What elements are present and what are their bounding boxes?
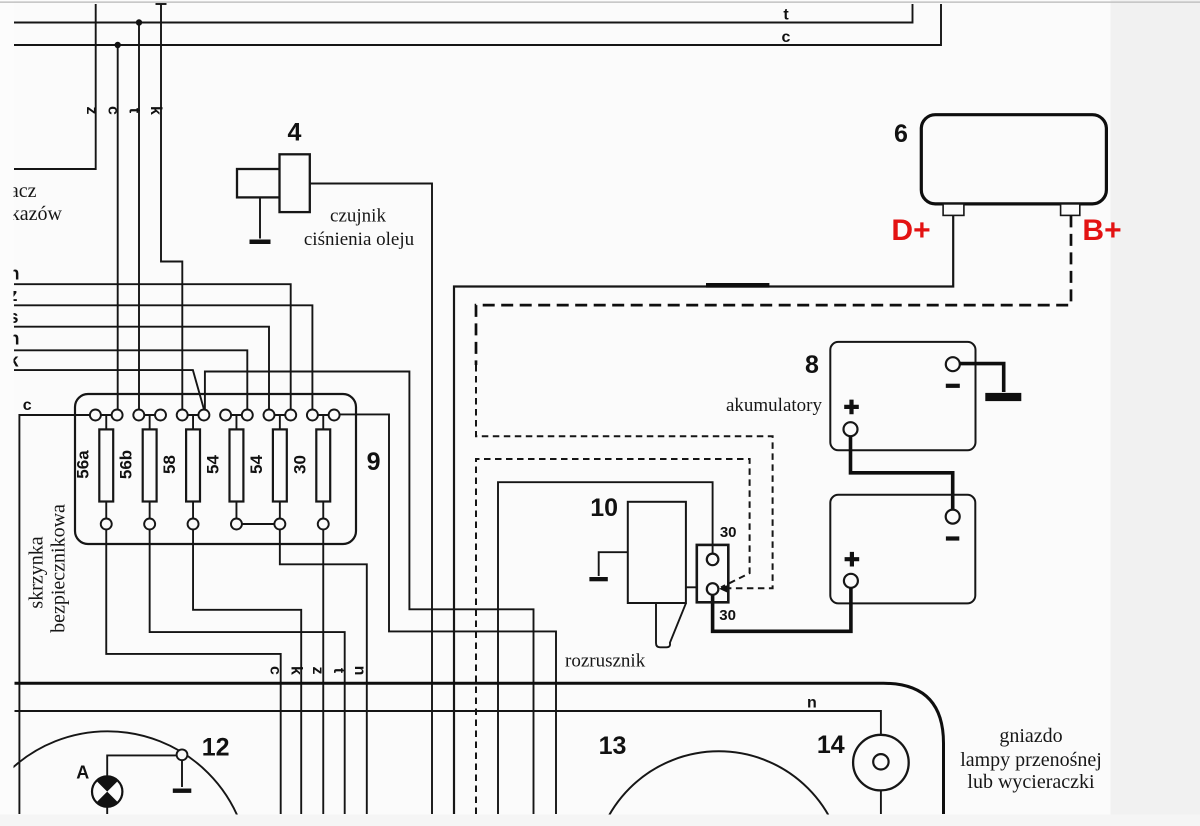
svg-text:13: 13 xyxy=(599,732,627,760)
minus sign lower battery xyxy=(946,536,959,540)
wire from fuse circle 6 up and right, down to bottom edge xyxy=(205,372,534,815)
ground cable from battery 8 minus xyxy=(960,364,1004,392)
wire t bus (top horizontal, turns up at right) xyxy=(14,4,913,23)
plus terminal circle battery 8 xyxy=(844,422,858,436)
right scan margin band xyxy=(1111,0,1200,826)
plus sign battery 8 xyxy=(844,400,859,415)
wire fuse1 bottom to bottom edge (label c) xyxy=(106,530,280,815)
svg-text:lub wycieraczki: lub wycieraczki xyxy=(967,771,1095,793)
fuse 54 body (second) xyxy=(273,429,287,501)
wire row s to fuse circle 9 xyxy=(14,327,269,410)
svg-text:54: 54 xyxy=(247,455,266,474)
socket 14 inner circle xyxy=(873,754,888,769)
svg-text:54: 54 xyxy=(203,455,222,474)
svg-text:c: c xyxy=(782,29,791,46)
thick mark on D+ wire xyxy=(706,283,769,288)
starter foot xyxy=(656,603,686,647)
terminal tab D+ of box 6 xyxy=(943,204,964,216)
svg-text:k: k xyxy=(288,666,305,675)
svg-text:czujnik: czujnik xyxy=(330,206,386,227)
svg-text:c: c xyxy=(23,397,32,414)
svg-text:t: t xyxy=(330,668,347,674)
notch link starter to terminal box xyxy=(686,586,697,588)
terminal circle 30 upper xyxy=(707,554,719,566)
svg-text:58: 58 xyxy=(160,455,179,474)
wire from bottom edge up to terminal 30 upper xyxy=(498,482,713,814)
fuse 30 body xyxy=(316,429,330,501)
wire c into fuse circle 1 and left drop to bottom edge xyxy=(19,415,90,814)
dashed wire from bottom edge to starter terminal 30 (inner) xyxy=(476,459,750,814)
starter ground lead xyxy=(599,552,628,576)
svg-text:14: 14 xyxy=(817,731,845,759)
svg-text:6: 6 xyxy=(894,120,908,148)
svg-text:z: z xyxy=(83,107,100,115)
fuse 58 body xyxy=(186,429,200,501)
wire lamp bottom to edge xyxy=(106,807,108,814)
wire c drop to fuse circle 2 xyxy=(117,45,119,410)
svg-text:skrzynka: skrzynka xyxy=(26,536,48,608)
wire from fuse circle 12 right and down to bottom edge xyxy=(340,414,556,814)
wire n inside frame to socket 14 xyxy=(15,711,881,755)
wire from sensor 4 to bottom edge xyxy=(310,184,433,815)
minus sign battery 8 xyxy=(946,384,960,388)
ground lead of sensor 4 xyxy=(259,197,261,239)
fuse top terminal circles row xyxy=(90,410,340,421)
wire lamp top to node on circle 12 xyxy=(107,755,176,776)
svg-text:bezpiecznikowa: bezpiecznikowa xyxy=(48,504,70,633)
series cable battery 8 plus to battery minus xyxy=(851,436,953,509)
ground bar of sensor 4 xyxy=(250,240,271,245)
wire z (vertical from top, turns left to edge) xyxy=(14,4,96,169)
wire from socket 14 to bottom edge xyxy=(880,790,882,814)
svg-text:t: t xyxy=(126,108,143,114)
link between bottom circles of fuses 54-54 xyxy=(242,523,274,525)
svg-text:acz: acz xyxy=(10,180,37,202)
wire fuse2 bottom to bottom edge (label t) xyxy=(150,530,345,815)
top scan edge line xyxy=(0,1,1200,3)
wire row n2 to fuse circle 8 xyxy=(14,350,247,409)
fuse box 9 (skrzynka bezpiecznikowa) outline xyxy=(75,394,356,544)
minus terminal circle battery 8 xyxy=(946,357,960,371)
svg-text:12: 12 xyxy=(202,734,230,762)
terminal circle 30 lower xyxy=(707,583,719,595)
svg-text:30: 30 xyxy=(290,455,309,474)
ground bar battery 8 xyxy=(985,393,1021,401)
svg-text:10: 10 xyxy=(590,494,618,522)
svg-text:30: 30 xyxy=(720,524,737,541)
cable lower battery plus to starter terminal 30 xyxy=(713,588,851,632)
node circle on arc 12 xyxy=(177,749,188,760)
wire t drop to fuse circle 3 xyxy=(138,23,140,410)
svg-text:A: A xyxy=(76,763,89,783)
svg-text:z: z xyxy=(309,667,326,675)
junction dot on c bus xyxy=(115,42,121,48)
ground bar in circle 12 xyxy=(173,789,192,793)
svg-text:gniazdo: gniazdo xyxy=(999,725,1062,747)
svg-text:lampy przenośnej: lampy przenośnej xyxy=(960,749,1102,771)
svg-text:akumulatory: akumulatory xyxy=(726,395,823,416)
circle 12 (large arc, headlight) xyxy=(0,731,250,826)
starter 10 body (rozrusznik) xyxy=(628,502,686,603)
minus terminal circle lower battery xyxy=(946,510,960,524)
fuse 56b body xyxy=(143,429,157,501)
svg-text:8: 8 xyxy=(805,351,819,379)
svg-text:56b: 56b xyxy=(117,450,136,479)
fuse bottom terminal circles xyxy=(101,519,329,530)
socket 14 outer circle xyxy=(853,735,909,791)
wire fuse6 bottom straight down (label z) xyxy=(322,530,324,815)
svg-text:ciśnienia oleju: ciśnienia oleju xyxy=(304,229,415,250)
left scan margin xyxy=(0,0,14,826)
battery lower box xyxy=(830,495,975,604)
arrowhead at terminal 30 xyxy=(719,584,730,593)
fuse pair connectors and stubs xyxy=(101,415,329,429)
svg-text:n: n xyxy=(807,695,817,712)
wire fuse5 bottom to bottom edge (label n) xyxy=(280,530,367,815)
circle 13 (large arc) xyxy=(593,751,845,826)
svg-text:k: k xyxy=(147,106,164,115)
wire row n to fuse circle 10 xyxy=(14,284,291,409)
svg-text:c: c xyxy=(105,106,122,115)
oil pressure sensor 4 body xyxy=(280,154,310,212)
svg-text:9: 9 xyxy=(367,448,381,476)
svg-text:56a: 56a xyxy=(73,450,92,479)
terminal tab B+ of box 6 xyxy=(1061,204,1080,216)
svg-text:c: c xyxy=(266,666,283,675)
regulator box 6 xyxy=(921,115,1106,204)
wire D+ down, left and to bottom edge xyxy=(454,215,953,814)
svg-text:rozrusznik: rozrusznik xyxy=(565,651,646,672)
wire k (from top cap, jogs right, to fuse circle 5) xyxy=(161,4,182,410)
cap tick on wire k top xyxy=(156,3,167,5)
svg-text:B+: B+ xyxy=(1082,214,1121,247)
svg-text:4: 4 xyxy=(288,119,302,147)
bottom scan margin strip xyxy=(0,815,1200,826)
fuse 54 body (first) xyxy=(230,429,244,501)
junction dot on t bus xyxy=(136,19,142,25)
ground lead from node xyxy=(181,760,183,787)
frame of bottom unit (thick line with rounded corner) xyxy=(15,683,944,814)
svg-text:D+: D+ xyxy=(891,214,930,247)
wire fuse3 bottom to bottom edge (label k) xyxy=(193,530,301,815)
svg-text:30: 30 xyxy=(719,607,736,624)
svg-text:kazów: kazów xyxy=(10,203,63,225)
starter terminal box xyxy=(697,545,729,602)
plus terminal circle lower battery xyxy=(844,574,858,588)
svg-text:n: n xyxy=(351,666,368,676)
fuse 56a body xyxy=(99,429,113,501)
dashed wire B+ down and left xyxy=(476,215,1071,365)
lamp A symbol circle xyxy=(92,776,122,806)
wire c bus (second horizontal, turns up at right) xyxy=(14,4,941,45)
wire row k2 with diagonal into fuse circle 6 xyxy=(14,370,204,409)
dashed wire continuation to starter terminal 30 xyxy=(476,365,773,588)
wire row z to fuse circle 11 xyxy=(14,305,312,409)
lamp A filled wedges xyxy=(96,776,118,806)
fuse bottom stubs xyxy=(106,502,323,519)
oil pressure sensor 4 left block xyxy=(237,169,280,197)
starter ground bar xyxy=(589,577,607,581)
battery 8 upper box xyxy=(830,342,975,450)
plus sign lower battery xyxy=(845,552,860,567)
svg-text:t: t xyxy=(783,7,789,24)
